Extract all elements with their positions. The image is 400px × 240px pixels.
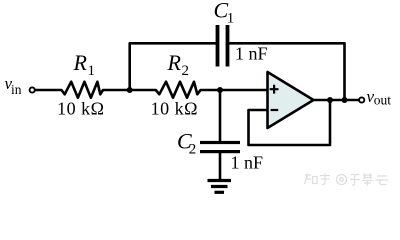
- svg-text:10 kΩ: 10 kΩ: [151, 98, 198, 118]
- svg-text:1 nF: 1 nF: [231, 153, 264, 173]
- svg-text:1: 1: [88, 63, 96, 79]
- svg-text:2: 2: [189, 142, 197, 158]
- svg-text:1 nF: 1 nF: [235, 43, 268, 63]
- svg-text:R: R: [167, 50, 182, 75]
- svg-text:out: out: [374, 92, 392, 107]
- svg-text:10 kΩ: 10 kΩ: [57, 98, 104, 118]
- svg-text:1: 1: [227, 11, 235, 27]
- svg-text:R: R: [73, 50, 88, 75]
- svg-text:in: in: [11, 82, 22, 97]
- svg-text:2: 2: [182, 63, 190, 79]
